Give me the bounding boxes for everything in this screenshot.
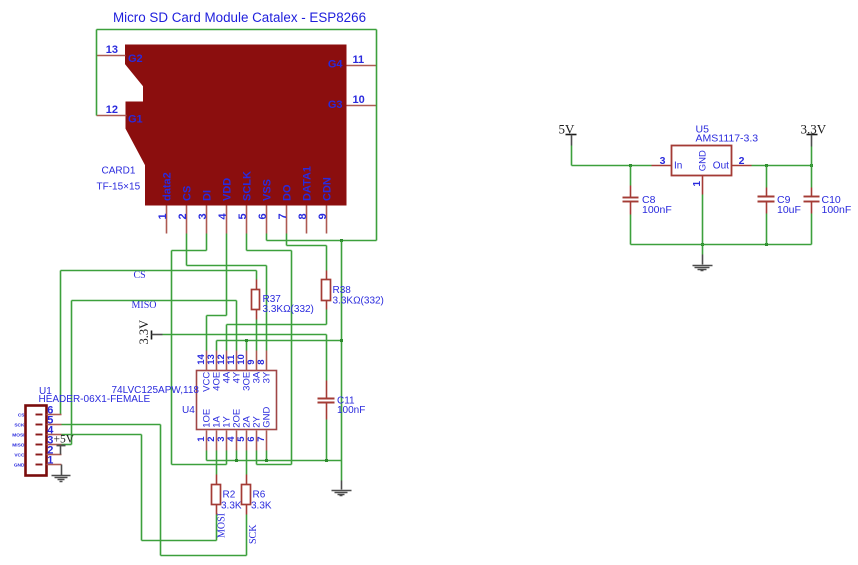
node junction C8 top bbox=[629, 164, 632, 167]
wire CS horizontal y270 bbox=[61, 270, 257, 272]
CARD1 pin 4 stub bbox=[226, 206, 228, 234]
SD card CARD1 body TF-15x15 bbox=[126, 45, 347, 205]
wire CS vertical to header pin6 bbox=[60, 271, 62, 415]
svg-text:GND: GND bbox=[14, 462, 25, 468]
svg-text:7: 7 bbox=[277, 213, 289, 219]
svg-text:SCLK: SCLK bbox=[241, 171, 253, 201]
wire MISO down to U4 pin11 bbox=[236, 301, 238, 351]
capacitor C8 bbox=[630, 166, 632, 186]
wire U4 pin10 up bbox=[246, 341, 248, 351]
CARD1 pin 13 line bbox=[97, 55, 126, 57]
svg-text:8: 8 bbox=[297, 213, 309, 219]
U4 pin 10 stub bbox=[246, 351, 248, 371]
CARD1 pin 6 stub bbox=[266, 206, 268, 234]
wire R2 bottom down bbox=[216, 515, 218, 541]
wire DO down to R38 bbox=[326, 246, 328, 271]
U4 pin 8 stub bbox=[266, 351, 268, 371]
op-amp U4 74LVC125APW body bbox=[197, 371, 277, 430]
wire VSS horizontal y240 bbox=[267, 240, 377, 242]
svg-text:Micro SD Card Module Catalex -: Micro SD Card Module Catalex - ESP8266 bbox=[113, 10, 366, 25]
svg-text:3.3KΩ(332): 3.3KΩ(332) bbox=[263, 304, 314, 315]
CARD1 pin 8 stub bbox=[306, 206, 308, 234]
wire R6 bottom down bbox=[246, 515, 248, 556]
CARD1 pin 3 stub bbox=[206, 206, 208, 234]
svg-text:MOSI: MOSI bbox=[216, 513, 227, 538]
wire card pin6 VSS stub down bbox=[266, 234, 268, 241]
wire C10 bottom bbox=[811, 214, 813, 245]
wire CS down to R37 bbox=[256, 271, 258, 280]
wire U4 pin2 1A down to R2 bbox=[216, 451, 218, 475]
svg-text:3.3V: 3.3V bbox=[137, 320, 151, 345]
wire U4 pin6 2Y down bbox=[256, 451, 258, 465]
wire C9 bottom bbox=[766, 214, 768, 245]
wire 5V rail to U5 In bbox=[572, 165, 652, 167]
wire 3.3V rail down to C11 bbox=[326, 335, 328, 381]
svg-text:3.3KΩ(332): 3.3KΩ(332) bbox=[333, 296, 384, 307]
U4 pin 7 stub bbox=[266, 431, 268, 451]
U4 pin 9 stub bbox=[256, 351, 258, 371]
CARD1 pin 9 stub bbox=[326, 206, 328, 234]
wire MISO link to header pin3 bbox=[62, 444, 72, 446]
node junction C10 top bbox=[810, 164, 813, 167]
svg-text:2: 2 bbox=[739, 155, 745, 167]
svg-text:12: 12 bbox=[106, 104, 118, 116]
svg-text:G3: G3 bbox=[328, 99, 343, 111]
svg-text:R38: R38 bbox=[333, 285, 352, 296]
node GND junction C11 bbox=[325, 459, 328, 462]
wire SCK bottom y555 bbox=[161, 555, 247, 557]
U5 pin 2 line bbox=[732, 165, 752, 167]
wire DI vertical x171 bbox=[171, 251, 173, 465]
wire VCC link y315 bbox=[207, 315, 227, 317]
node GND junction pin4 bbox=[235, 459, 238, 462]
U4 pin 3 stub bbox=[226, 431, 228, 451]
svg-text:7: 7 bbox=[256, 437, 267, 442]
CARD1 pin 5 stub bbox=[246, 206, 248, 234]
svg-text:DO: DO bbox=[281, 184, 293, 201]
wire card pin4 VDD down bbox=[226, 234, 228, 316]
wire shield left vertical bbox=[96, 30, 98, 116]
svg-text:In: In bbox=[674, 161, 682, 172]
wire MOSI horizontal y434 bbox=[62, 434, 142, 436]
svg-text:MOSI: MOSI bbox=[12, 432, 25, 438]
capacitor C11 bbox=[326, 381, 328, 399]
svg-text:1: 1 bbox=[157, 213, 169, 219]
wire DI horizontal y464 bbox=[172, 464, 227, 466]
wire SCK vertical x160 bbox=[160, 425, 162, 556]
ground at VSS net bbox=[341, 481, 343, 490]
wire R38 bottom down bbox=[326, 310, 328, 325]
svg-text:6: 6 bbox=[257, 213, 269, 219]
svg-text:100nF: 100nF bbox=[642, 204, 672, 216]
connector U1 HEADER-06X1-FEMALE body bbox=[26, 406, 47, 476]
svg-text:CS: CS bbox=[134, 270, 146, 281]
svg-text:G4: G4 bbox=[328, 59, 344, 71]
U1 pin 5 line bbox=[47, 424, 62, 426]
svg-text:DATA1: DATA1 bbox=[301, 166, 313, 201]
svg-text:+5V: +5V bbox=[54, 434, 75, 446]
capacitor C9 bbox=[766, 166, 768, 188]
wire U4 pin4 2OE down bbox=[236, 451, 238, 461]
U4 pin 12 stub bbox=[226, 351, 228, 371]
wire DI jog y250 bbox=[172, 250, 207, 252]
wire 3.3V flag down bbox=[811, 147, 813, 166]
resistor R37 bbox=[256, 280, 258, 290]
svg-text:100nF: 100nF bbox=[337, 405, 365, 416]
svg-text:CDN: CDN bbox=[321, 177, 333, 201]
svg-text:GND: GND bbox=[698, 150, 709, 171]
regulator U5 AMS1117-3.3 body bbox=[672, 146, 732, 176]
svg-text:GND: GND bbox=[261, 407, 272, 428]
svg-text:MISO: MISO bbox=[132, 300, 157, 311]
wire MISO horizontal y300 bbox=[72, 300, 237, 302]
CARD1 pin 7 stub bbox=[286, 206, 288, 234]
wire U4 pin5 2A down to R6 bbox=[246, 451, 248, 475]
U4 pin 6 stub bbox=[256, 431, 258, 451]
wire R38 horizontal y324 bbox=[227, 324, 327, 326]
node OE junction pin10 bbox=[245, 339, 248, 342]
svg-text:10uF: 10uF bbox=[777, 204, 801, 216]
wire GND net y460 bbox=[207, 460, 342, 462]
wire MOSI vertical x141 bbox=[141, 435, 143, 541]
wire U4 pin14 VCC up bbox=[206, 316, 208, 351]
svg-text:100nF: 100nF bbox=[822, 204, 852, 216]
U1 pin 3 contact bbox=[36, 444, 43, 446]
resistor R2 bbox=[216, 475, 218, 485]
CARD1 pin 1 stub bbox=[166, 206, 168, 234]
wire U5 pin1 down bbox=[702, 195, 704, 255]
U4 pin 13 stub bbox=[216, 351, 218, 371]
svg-text:10: 10 bbox=[353, 94, 365, 106]
svg-text:VDD: VDD bbox=[221, 178, 233, 201]
svg-text:4: 4 bbox=[217, 213, 229, 220]
U4 pin 11 stub bbox=[236, 351, 238, 371]
wire card pin5 SCLK down bbox=[246, 234, 248, 251]
U4 pin 14 stub bbox=[206, 351, 208, 371]
U4 pin 4 stub bbox=[236, 431, 238, 451]
capacitor C10 bbox=[811, 166, 813, 188]
U4 pin 5 stub bbox=[246, 431, 248, 451]
wire R38 net down to U4 pin12 bbox=[226, 325, 228, 351]
node junction C9 top bbox=[765, 164, 768, 167]
svg-text:Out: Out bbox=[713, 161, 729, 172]
svg-text:3.3K: 3.3K bbox=[221, 501, 242, 512]
U1 pin 5 contact bbox=[36, 424, 43, 426]
U4 pin 2 stub bbox=[216, 431, 218, 451]
svg-text:VSS: VSS bbox=[261, 179, 273, 201]
svg-text:TF-15×15: TF-15×15 bbox=[97, 182, 141, 193]
wire U4 pin3 1Y down bbox=[226, 451, 228, 465]
svg-text:G1: G1 bbox=[128, 114, 143, 126]
svg-text:HEADER-06X1-FEMALE: HEADER-06X1-FEMALE bbox=[39, 394, 151, 405]
svg-text:8: 8 bbox=[256, 360, 267, 365]
wire card pin7 DO down bbox=[286, 234, 288, 246]
U5 pin 3 line bbox=[652, 165, 672, 167]
resistor R38 bbox=[326, 271, 328, 280]
wire DO horizontal y245 bbox=[287, 245, 327, 247]
wire R37 bottom to U4 pin9 bbox=[256, 320, 258, 351]
wire 3.3V rail y334 bbox=[163, 334, 327, 336]
wire VSS down to ground bbox=[341, 241, 343, 481]
wire MOSI bottom y540 bbox=[142, 540, 217, 542]
wire U4 pin7 GND down bbox=[266, 451, 268, 461]
U1 pin 1 line bbox=[47, 464, 62, 466]
wire SCLK horizontal y464 bbox=[257, 464, 292, 466]
node junction GND rail bbox=[701, 243, 704, 246]
U1 pin 2 contact bbox=[36, 454, 43, 456]
wire GND rail y244 bbox=[631, 244, 812, 246]
svg-text:CS: CS bbox=[181, 186, 193, 201]
wire SCLK vertical x291 bbox=[291, 251, 293, 465]
CARD1 pin 2 stub bbox=[186, 206, 188, 234]
wire SCLK jog y250 bbox=[247, 250, 292, 252]
svg-text:R2: R2 bbox=[223, 490, 236, 501]
svg-text:DI: DI bbox=[201, 190, 213, 201]
svg-text:CARD1: CARD1 bbox=[102, 166, 136, 177]
wire C11 bottom down bbox=[326, 420, 328, 461]
U1 pin 4 line bbox=[47, 434, 62, 436]
wire shield top bbox=[97, 29, 377, 31]
node GND junction pin7 bbox=[265, 459, 268, 462]
ground at U5 pin1 bbox=[702, 255, 704, 265]
U1 pin 6 line bbox=[47, 414, 62, 416]
svg-text:3: 3 bbox=[197, 213, 209, 219]
svg-text:G2: G2 bbox=[128, 53, 143, 65]
wire shield right vertical bbox=[376, 30, 378, 241]
svg-text:data2: data2 bbox=[161, 172, 173, 201]
wire card CS down to U4 pin8 bbox=[266, 266, 268, 351]
svg-text:VCC: VCC bbox=[14, 452, 25, 458]
U1 pin 2 line bbox=[47, 454, 62, 456]
wire SCK horizontal y424 bbox=[62, 424, 161, 426]
svg-text:3: 3 bbox=[660, 155, 666, 167]
wire C8 bottom bbox=[630, 215, 632, 245]
svg-text:2: 2 bbox=[177, 213, 189, 219]
ground at U1 pin1 bbox=[61, 465, 63, 476]
svg-text:SCK: SCK bbox=[248, 524, 259, 544]
svg-text:R6: R6 bbox=[253, 490, 266, 501]
CARD1 pin 11 line bbox=[347, 65, 377, 67]
U1 pin 3 line bbox=[47, 444, 62, 446]
svg-text:3.3K: 3.3K bbox=[251, 501, 272, 512]
node junction C9 bottom bbox=[765, 243, 768, 246]
wire card pin2 CS down bbox=[186, 234, 188, 266]
U4 pin 1 stub bbox=[206, 431, 208, 451]
svg-text:SCK: SCK bbox=[14, 422, 25, 428]
resistor R6 bbox=[246, 475, 248, 485]
wire OE net y340 bbox=[217, 340, 342, 342]
svg-text:9: 9 bbox=[317, 213, 329, 219]
svg-text:U4: U4 bbox=[182, 405, 195, 416]
svg-text:3Y: 3Y bbox=[261, 371, 272, 383]
wire card pin3 DI down bbox=[206, 234, 208, 251]
wire MISO vertical x71 bbox=[71, 301, 73, 445]
wire Out rail bbox=[752, 165, 812, 167]
svg-text:11: 11 bbox=[353, 54, 365, 66]
svg-text:1: 1 bbox=[47, 454, 53, 466]
U1 pin 6 contact bbox=[36, 414, 43, 416]
node VSS junction bbox=[340, 239, 343, 242]
wire U4 pin1 1OE down bbox=[206, 451, 208, 461]
wire U4 pin13 up bbox=[216, 341, 218, 351]
svg-text:1: 1 bbox=[692, 181, 703, 187]
U1 pin 1 contact bbox=[36, 464, 43, 466]
CARD1 pin 12 line bbox=[97, 115, 127, 117]
wire card CS horizontal y265 bbox=[187, 265, 267, 267]
CARD1 pin 10 line bbox=[347, 105, 377, 107]
svg-text:CS: CS bbox=[18, 412, 25, 418]
wire 5V down bbox=[571, 146, 573, 166]
svg-text:MISO: MISO bbox=[12, 442, 25, 448]
svg-text:5: 5 bbox=[237, 213, 249, 219]
svg-text:AMS1117-3.3: AMS1117-3.3 bbox=[696, 133, 759, 145]
node OE junction VSS bbox=[340, 339, 343, 342]
svg-text:13: 13 bbox=[106, 44, 118, 56]
U5 pin 1 line bbox=[702, 176, 704, 195]
U1 pin 4 contact bbox=[36, 434, 43, 436]
